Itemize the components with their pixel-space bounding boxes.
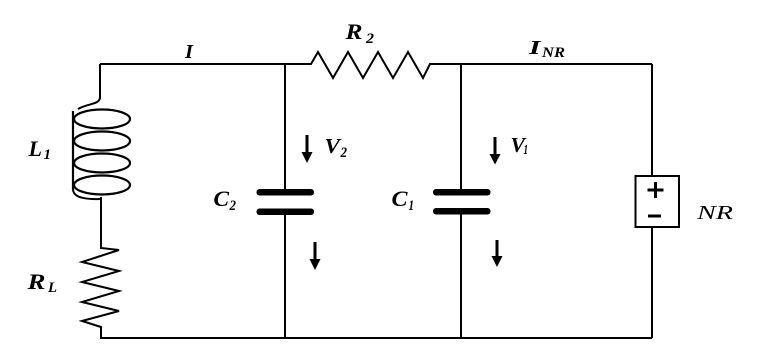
svg-text:R: R (344, 19, 362, 44)
svg-text:NR: NR (541, 45, 566, 61)
svg-text:I: I (184, 41, 194, 63)
svg-text:2: 2 (229, 198, 237, 214)
svg-text:2: 2 (365, 31, 375, 47)
svg-text:1: 1 (409, 198, 415, 214)
svg-text:1: 1 (44, 147, 52, 163)
svg-text:C: C (392, 186, 408, 211)
svg-text:L: L (27, 136, 42, 161)
svg-text:NR: NR (696, 202, 733, 224)
svg-text:R: R (26, 269, 45, 294)
svg-text:2: 2 (340, 145, 348, 161)
svg-text:C: C (214, 186, 230, 211)
svg-text:1: 1 (524, 143, 529, 158)
svg-text:I: I (528, 37, 543, 59)
svg-text:L: L (47, 280, 57, 296)
